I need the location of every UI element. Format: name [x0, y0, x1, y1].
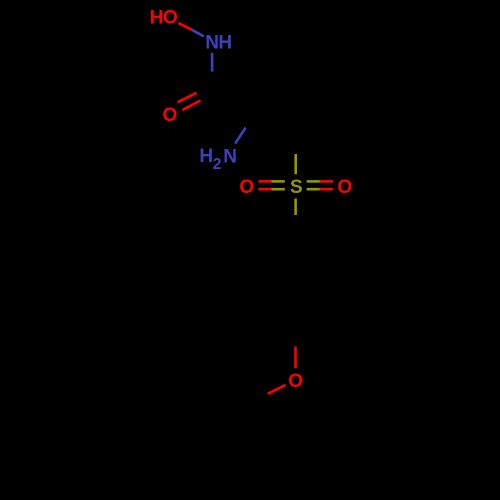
bond S1=O3 upper line red half [258, 180, 271, 183]
svg-text:N: N [223, 146, 237, 167]
bond C3-S1 olive half [294, 154, 297, 174]
bond C2-N2 blue half [235, 128, 245, 144]
bond S1-C4 ring olive half [294, 199, 297, 216]
svg-text:2: 2 [213, 156, 222, 173]
bond S1=O3 lower line red half [258, 188, 271, 191]
bond C7-O5 red half [294, 347, 297, 369]
svg-text:O: O [288, 371, 303, 392]
bond N1-C1 blue half [211, 53, 214, 72]
svg-text:O: O [337, 177, 352, 198]
bond S1=O4 lower line red half [320, 188, 333, 191]
svg-text:O: O [239, 177, 254, 198]
bond S1=O3 upper line olive half [272, 180, 285, 183]
bond C1=O2 double line b [182, 100, 200, 110]
bond O1-N1 blue half [192, 30, 204, 37]
bond S1=O4 lower line olive half [307, 188, 320, 191]
svg-text:O: O [163, 105, 178, 126]
bond C1=O2 double line a [178, 93, 197, 103]
bond S1=O4 upper line red half [320, 180, 333, 183]
svg-text:NH: NH [205, 33, 231, 54]
bond O5-C8 red half [268, 385, 286, 394]
svg-text:H: H [199, 146, 213, 167]
bond O1-N1 red half [179, 23, 192, 30]
svg-text:S: S [290, 177, 303, 198]
bond S1=O3 lower line olive half [272, 188, 285, 191]
svg-text:HO: HO [150, 7, 178, 28]
bond S1=O4 upper line olive half [307, 180, 320, 183]
